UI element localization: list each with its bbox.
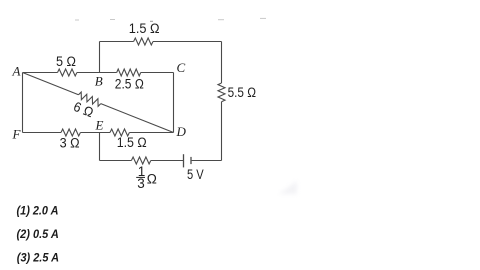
wire A to 6-ohm resistor (diagonal) (23, 73, 79, 95)
wire 1/3-ohm to battery (151, 160, 184, 162)
svg-text:1.5 Ω: 1.5 Ω (117, 135, 147, 150)
wire C to D (right side of rectangle) (173, 73, 175, 133)
svg-text:F: F (12, 127, 22, 142)
wire E down to bottom branch (99, 133, 101, 161)
svg-text:(2) 0.5 A: (2) 0.5 A (17, 227, 59, 241)
svg-text:5 V: 5 V (187, 167, 204, 182)
resistor 2.5 ohm (between B and C) (117, 69, 141, 76)
svg-text:(1) 2.0 A: (1) 2.0 A (17, 204, 59, 218)
wire battery to right corner (192, 160, 222, 162)
svg-text:3 Ω: 3 Ω (60, 135, 80, 150)
svg-text:5.5 Ω: 5.5 Ω (228, 85, 256, 100)
wire A to 5-ohm resistor (top side) (23, 72, 58, 74)
resistor 1.5 ohm (between E and D) (110, 129, 129, 136)
wire 1.5-ohm to D (129, 132, 173, 134)
battery 5V positive plate (long) (183, 154, 185, 167)
svg-text:1.5 Ω: 1.5 Ω (129, 21, 160, 36)
svg-text:C: C (177, 60, 186, 75)
wire 5.5-ohm down to bottom branch (221, 102, 223, 161)
svg-text:B: B (95, 73, 103, 88)
svg-text:A: A (12, 64, 21, 79)
wire 3-ohm to E to 1.5-ohm resistor (80, 132, 110, 134)
wire B up to top branch (99, 42, 101, 73)
svg-text:Ω: Ω (147, 172, 157, 187)
svg-text:D: D (176, 124, 187, 139)
wire 6-ohm resistor to D (101, 104, 174, 133)
wire 2.5-ohm to C (141, 72, 174, 74)
wire bottom branch to 1/3-ohm resistor (100, 160, 132, 162)
wire right branch down to 5.5-ohm resistor (221, 42, 223, 84)
resistor 5.5 ohm (right branch) (218, 83, 225, 102)
svg-text:5 Ω: 5 Ω (56, 54, 76, 69)
svg-text:E: E (95, 118, 104, 133)
wire top branch left segment (100, 41, 134, 43)
resistor 3 ohm (between F and E) (61, 129, 80, 136)
resistor 5 ohm (between A and B) (58, 69, 77, 76)
wire A to F (left side of rectangle) (22, 73, 24, 133)
svg-text:3: 3 (137, 176, 145, 191)
resistor 1.5 ohm (top branch) (134, 38, 153, 45)
battery 5V negative plate (short) (190, 157, 192, 164)
fraction bar of 1/3 ohm label (136, 176, 145, 178)
resistor 1/3 ohm (bottom branch) (131, 157, 150, 164)
wire top branch right segment (153, 41, 222, 43)
wire 5-ohm to B to 2.5-ohm resistor (77, 72, 117, 74)
resistor 6 ohm (on diagonal A-D) (77, 91, 102, 106)
svg-text:2.5 Ω: 2.5 Ω (115, 76, 144, 91)
wire F to 3-ohm resistor (bottom side) (23, 132, 62, 134)
svg-text:(3) 2.5 A: (3) 2.5 A (17, 251, 59, 265)
